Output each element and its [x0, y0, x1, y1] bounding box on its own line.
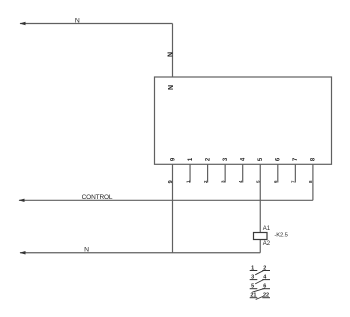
- wire stub pin 4: [242, 164, 244, 183]
- svg-text:N: N: [75, 17, 80, 24]
- contact cross-reference row 3 terminals 5-6: [250, 284, 270, 292]
- svg-text:N: N: [84, 247, 89, 254]
- svg-text:7: 7: [293, 157, 299, 161]
- wire stub pin 6: [277, 164, 279, 183]
- svg-text:N: N: [167, 52, 174, 57]
- wire stub pin 2: [207, 164, 209, 183]
- wire stub pin 3: [224, 164, 226, 183]
- svg-text:2: 2: [205, 157, 211, 161]
- svg-text:5: 5: [258, 157, 264, 161]
- wire N top horizontal: [20, 23, 173, 25]
- relay coil K2.5 rectangle: [254, 233, 268, 240]
- arrow left end of N bottom wire: [20, 251, 26, 254]
- svg-text:N: N: [168, 85, 175, 90]
- wire stub pin 9 leftmost continues to N bus: [172, 164, 174, 253]
- contact cross-reference row 4 terminals 21-22: [250, 293, 270, 300]
- pin numbers inside box bottom rotated: [170, 157, 316, 161]
- svg-text:3: 3: [223, 157, 229, 161]
- wire stub pin 1: [189, 164, 191, 183]
- wire coil A2 to N bus: [259, 240, 261, 253]
- svg-text:CONTROL: CONTROL: [82, 194, 113, 201]
- arrow left end of N top wire: [20, 22, 26, 25]
- svg-text:9: 9: [168, 180, 174, 183]
- wire vertical drop to box top pin: [172, 24, 174, 78]
- svg-text:-K2.5: -K2.5: [274, 232, 287, 238]
- wire stub pin 8 continues to CONTROL bus: [312, 164, 314, 200]
- svg-text:A2: A2: [263, 241, 271, 247]
- svg-text:4: 4: [241, 157, 247, 161]
- wire N bottom horizontal bus: [20, 252, 260, 254]
- wire number labels below stubs rotated: [168, 180, 313, 183]
- box U1 device outline: [155, 77, 332, 164]
- svg-text:8: 8: [311, 157, 317, 161]
- wire CONTROL horizontal bus: [19, 199, 313, 201]
- arrow left end of CONTROL wire: [19, 199, 25, 202]
- contact cross-reference row 2 terminals 3-4: [250, 275, 270, 284]
- wire stub pin 5 continues to coil A1: [259, 164, 261, 233]
- svg-text:A1: A1: [263, 226, 271, 232]
- contact cross-reference row 1 terminals 1-2: [250, 266, 270, 275]
- svg-text:6: 6: [276, 157, 282, 161]
- wire stub pin 7: [294, 164, 296, 183]
- svg-text:1: 1: [188, 157, 194, 161]
- svg-text:9: 9: [170, 157, 176, 161]
